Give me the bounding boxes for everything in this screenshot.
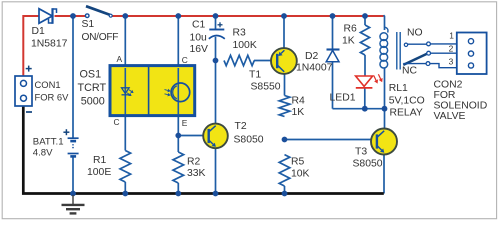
wire OS1 E pin to R2 junction — [177, 115, 179, 152]
svg-text:T1: T1 — [249, 70, 261, 81]
svg-text:3: 3 — [449, 57, 454, 67]
svg-text:NO: NO — [407, 28, 423, 39]
svg-text:NC: NC — [402, 66, 418, 77]
svg-text:R6: R6 — [344, 24, 358, 35]
pin label C top — [182, 55, 188, 65]
pin number 3 — [449, 57, 454, 67]
svg-text:4.8V: 4.8V — [33, 148, 53, 159]
svg-text:100E: 100E — [87, 167, 111, 178]
svg-text:2: 2 — [449, 44, 454, 54]
battery BATT.1 4.8V — [33, 137, 79, 159]
transistor T2 S8050 NPN — [203, 121, 264, 148]
wire R6 from rail — [364, 16, 366, 25]
svg-text:10u: 10u — [190, 33, 208, 44]
svg-text:5000: 5000 — [81, 95, 105, 107]
svg-text:R3: R3 — [233, 28, 247, 39]
wire D2 cathode from rail — [332, 16, 334, 50]
wire D2 anode down to node line — [332, 62, 334, 109]
svg-text:S1: S1 — [82, 19, 95, 30]
pin label E — [182, 118, 188, 128]
wire C1 column top — [215, 16, 217, 30]
svg-text:100K: 100K — [233, 40, 257, 51]
svg-text:1: 1 — [449, 31, 454, 41]
relay armature to pin 2 — [403, 51, 457, 65]
resistor R5 10K — [279, 155, 309, 186]
svg-text:D1: D1 — [32, 26, 46, 37]
LED1 — [330, 74, 383, 103]
svg-text:1N4007: 1N4007 — [296, 63, 333, 74]
svg-text:ON/OFF: ON/OFF — [82, 32, 119, 43]
resistor R1 100E — [87, 151, 131, 183]
wire black ground rail and CON1 negative lead — [23, 106, 384, 194]
ground — [62, 195, 85, 213]
svg-text:RL1: RL1 — [389, 83, 408, 94]
svg-text:1K: 1K — [292, 107, 305, 118]
svg-text:LED1: LED1 — [330, 93, 356, 104]
svg-text:CON2: CON2 — [434, 80, 463, 91]
pin label C bottom — [114, 117, 120, 127]
svg-text:R5: R5 — [291, 157, 305, 168]
OS1 label — [78, 68, 107, 107]
svg-text:C: C — [182, 55, 188, 65]
wire red rail S1 to relay coil — [112, 15, 384, 17]
wire T3 emitter to ground rail — [383, 155, 385, 194]
wire red positive rail from CON1 up and to D1 anode — [23, 16, 39, 76]
plus sign CON1 — [26, 66, 32, 72]
svg-text:T2: T2 — [235, 121, 247, 132]
relay contact NC row to pin 3 — [402, 62, 457, 77]
svg-text:OS1: OS1 — [80, 68, 102, 80]
minus sign CON1 — [26, 111, 32, 113]
wire OS1 anode A column — [124, 16, 126, 68]
svg-text:TCRT: TCRT — [78, 82, 107, 94]
svg-text:16V: 16V — [190, 44, 209, 55]
svg-text:C1: C1 — [192, 20, 206, 31]
plus sign BATT.1 — [63, 129, 69, 135]
wire R2 to ground rail — [177, 183, 179, 194]
wire R6 to LED1 — [364, 55, 366, 76]
svg-text:10K: 10K — [291, 169, 310, 180]
OS1 internal phototransistor — [165, 68, 190, 115]
OS1 internal IR LED — [122, 68, 134, 115]
svg-text:S8550: S8550 — [251, 82, 281, 93]
svg-text:SOLENOID: SOLENOID — [434, 101, 488, 112]
capacitor C1 10u 16V — [190, 20, 225, 56]
wire T1 emitter from rail — [283, 16, 285, 49]
wire OS1 C pin to R1 — [124, 115, 126, 151]
wire T2 emitter to ground rail — [215, 148, 217, 194]
label CON2 FOR SOLENOID VALVE — [434, 80, 488, 123]
wire R5 bottom to ground rail — [284, 186, 286, 194]
wire LED1 to node line — [364, 88, 366, 109]
switch S1 ON/OFF — [82, 6, 119, 43]
pin number 2 — [449, 44, 454, 54]
wire C1 bottom to node and T2 collector — [215, 37, 217, 124]
svg-text:5V,1CO: 5V,1CO — [389, 96, 425, 107]
pin label A — [117, 54, 123, 64]
wire battery column (junction to BATT.1 and BATT.1 to ground rail) — [72, 16, 74, 194]
wire R4 R5 junction to T3 base — [285, 139, 372, 141]
wire T2 base from OS1 E column — [178, 135, 203, 137]
svg-text:1N5817: 1N5817 — [31, 39, 68, 50]
svg-text:D2: D2 — [305, 51, 319, 62]
resistor R2 33K — [173, 152, 206, 183]
pin number 1 — [449, 31, 454, 41]
optocoupler OS1 TCRT5000 body — [110, 66, 195, 116]
resistor R3 100K — [224, 28, 257, 66]
wire T1 collector to R4 — [284, 74, 286, 96]
transistor T3 S8050 NPN — [353, 129, 398, 170]
svg-text:R4: R4 — [292, 96, 306, 107]
svg-text:S8050: S8050 — [234, 135, 264, 146]
svg-text:FOR 6V: FOR 6V — [35, 92, 70, 103]
connector CON2 — [457, 33, 487, 75]
resistor R6 1K — [342, 24, 370, 56]
resistor R4 1K — [279, 96, 305, 118]
svg-text:R1: R1 — [93, 155, 107, 166]
wire T3 collector — [384, 109, 386, 129]
svg-text:VALVE: VALVE — [434, 111, 466, 122]
svg-text:1K: 1K — [342, 36, 355, 47]
wire relay coil bottom to node — [384, 68, 386, 109]
transistor T1 S8550 PNP — [249, 48, 297, 92]
svg-text:RELAY: RELAY — [390, 108, 423, 119]
wire R1 to ground rail — [124, 182, 126, 194]
relay RL1 coil — [380, 27, 425, 118]
wire OS1 collector C column — [177, 16, 179, 68]
svg-text:A: A — [117, 54, 123, 64]
wire relay coil top from rail — [384, 15, 385, 30]
svg-text:C: C — [114, 117, 120, 127]
svg-text:T3: T3 — [355, 147, 367, 158]
svg-text:CON1: CON1 — [35, 79, 61, 90]
wire R3 right end to T1 base — [254, 60, 271, 62]
connector CON1 — [15, 76, 69, 106]
relay contact NO row to pin 1 — [404, 28, 457, 47]
svg-text:R2: R2 — [187, 157, 201, 168]
diode D2 1N4007 — [296, 50, 340, 74]
wire node line D2/LED1/relay — [333, 108, 385, 110]
junction nodes — [70, 13, 387, 196]
diode D1 1N5817 schottky — [31, 8, 68, 49]
svg-text:E: E — [182, 118, 188, 128]
svg-text:S8050: S8050 — [353, 159, 383, 170]
wire red rail D1 cathode to S1 — [55, 15, 87, 17]
svg-text:BATT.1: BATT.1 — [33, 137, 64, 148]
svg-text:FOR: FOR — [434, 90, 456, 101]
svg-text:33K: 33K — [187, 168, 206, 179]
